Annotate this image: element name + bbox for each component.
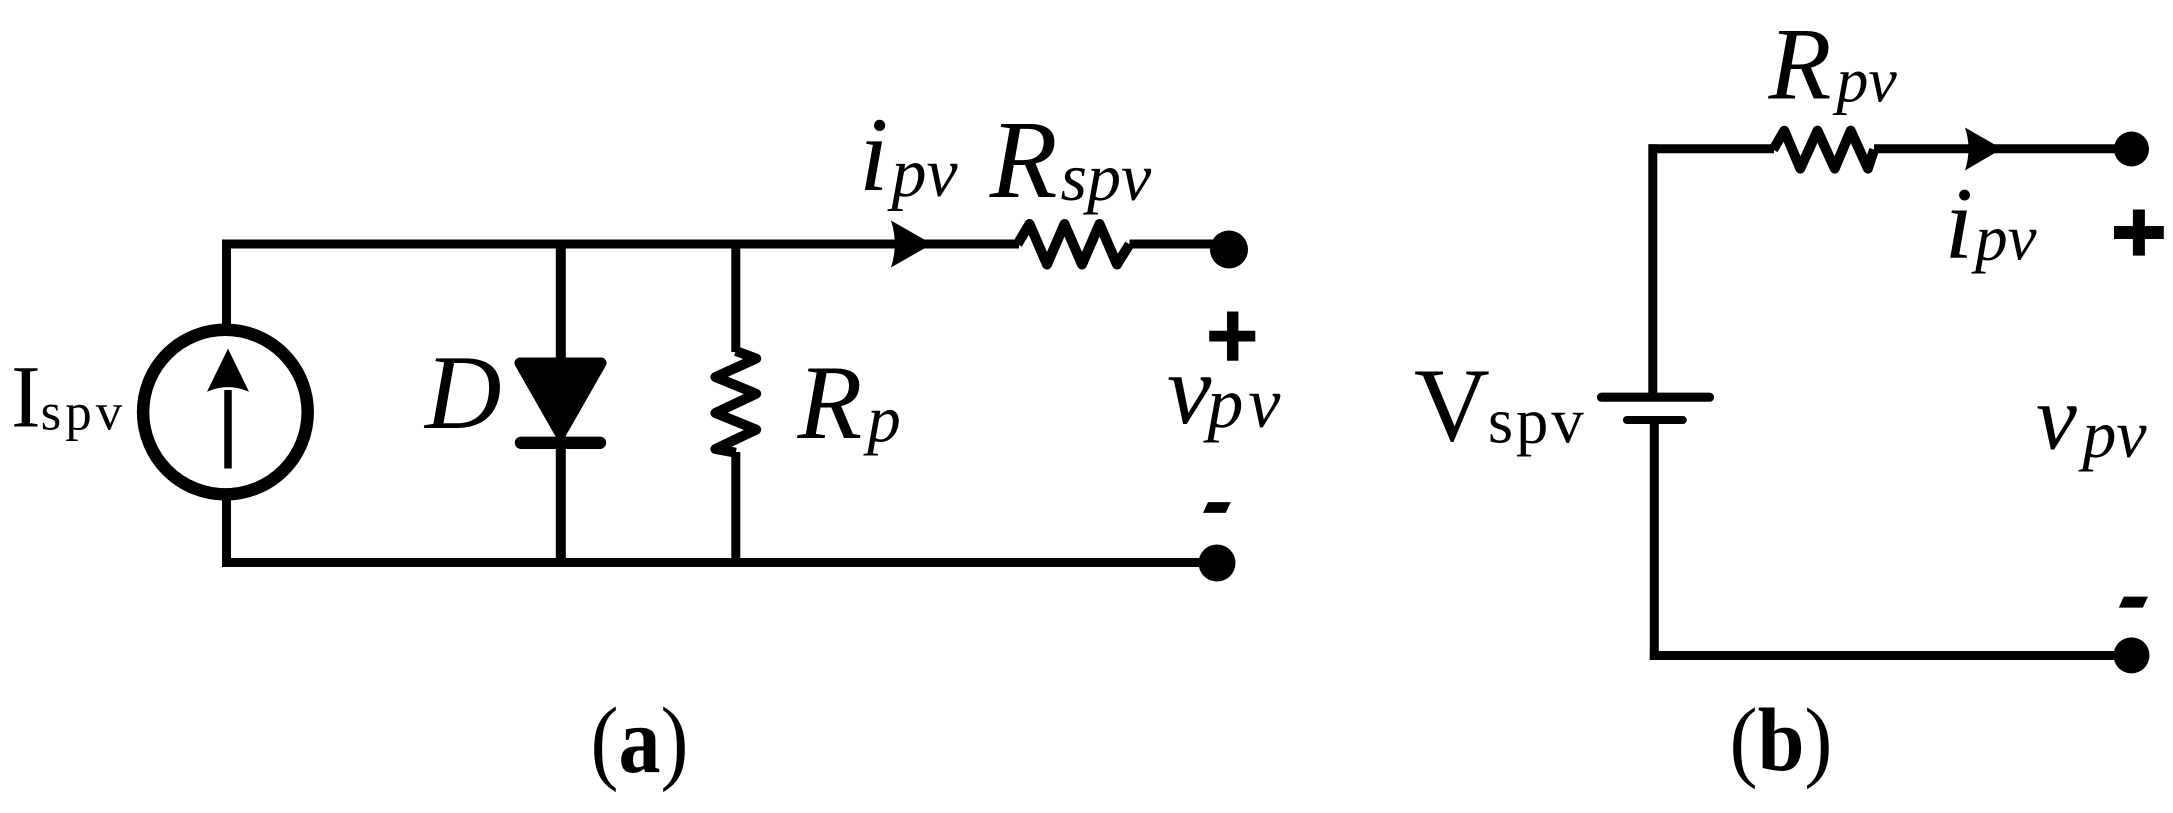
resistor R_pv zigzag on circuit (b) top rail [1773,131,1874,169]
plus sign at circuit (b) output [2114,210,2164,256]
wire: circuit (b) top rail left segment [1649,144,1775,153]
svg-text:vpv: vpv [1167,334,1285,445]
svg-text:ipv: ipv [859,96,958,213]
resistor R_p branch: top lead wire [731,244,740,352]
label v_pv (output voltage, circuit a) [1167,334,1285,445]
svg-text:Vspv: Vspv [1414,346,1587,463]
caption (b) [1730,691,1833,790]
svg-text:vpv: vpv [2036,367,2147,473]
label i_pv (output current, circuit b) [1945,167,2037,281]
svg-text:D: D [423,334,502,451]
current arrow i_pv on circuit (a) top rail [891,221,932,268]
minus sign at circuit (a) output [1203,502,1231,513]
svg-text:(a): (a) [591,689,689,793]
resistor R_p branch: bottom lead wire [731,452,740,563]
wire: circuit (a) bottom-left vertical from current source to bottom rail [222,494,231,567]
diode D branch wire (vertical) [556,244,566,563]
battery V_spv long (positive) plate [1602,393,1710,402]
node: circuit (b) positive terminal dot [2114,132,2149,167]
svg-text:Rspv: Rspv [989,99,1152,222]
label I_spv (current source value) [11,349,126,447]
label R_p (shunt resistor) [797,344,901,461]
svg-text:Rpv: Rpv [1768,8,1898,122]
node: circuit (a) positive terminal dot [1210,231,1248,269]
battery V_spv short (negative) plate [1627,416,1683,424]
label D (diode) [423,334,502,451]
svg-text:ipv: ipv [1945,167,2037,281]
label R_spv (series resistor) [989,99,1152,222]
current source arrow (upward) inside circle [207,349,249,469]
current source I_spv circle [143,330,308,495]
node: circuit (a) negative terminal dot [1199,545,1236,582]
resistor R_p zigzag body [715,351,756,453]
current arrow i_pv on circuit (b) top rail [1965,128,2002,171]
plus sign at circuit (a) output [1209,312,1255,361]
diode D cathode bar [521,437,600,449]
diode D triangle (anode, pointing down) [520,363,601,434]
minus sign at circuit (b) output [2119,597,2148,608]
wire: circuit (b) left vertical upper segment [1648,144,1657,397]
label R_pv (series resistor, circuit b) [1768,8,1898,122]
svg-text:Ispv: Ispv [11,349,126,447]
caption (a) [591,689,689,793]
svg-text:(b): (b) [1730,691,1833,790]
svg-text:Rp: Rp [797,344,901,461]
wire: circuit (a) bottom rail [222,558,1217,567]
wire: circuit (b) left vertical lower segment [1650,420,1659,660]
wire: circuit (a) top rail [222,240,1019,249]
label V_spv (source voltage) [1414,346,1587,463]
wire: circuit (a) top rail right segment to terminal [1130,240,1227,249]
node: circuit (b) negative terminal dot [2114,637,2150,673]
wire: circuit (a) top-left vertical from top rail to current source [222,240,231,331]
label v_pv (output voltage, circuit b) [2036,367,2147,473]
resistor R_spv zigzag on top rail [1018,224,1130,265]
label i_pv (output current, circuit a) [859,96,958,213]
wire: circuit (b) bottom rail [1650,651,2132,660]
wire: circuit (b) top rail right segment to terminal [1874,144,2128,153]
